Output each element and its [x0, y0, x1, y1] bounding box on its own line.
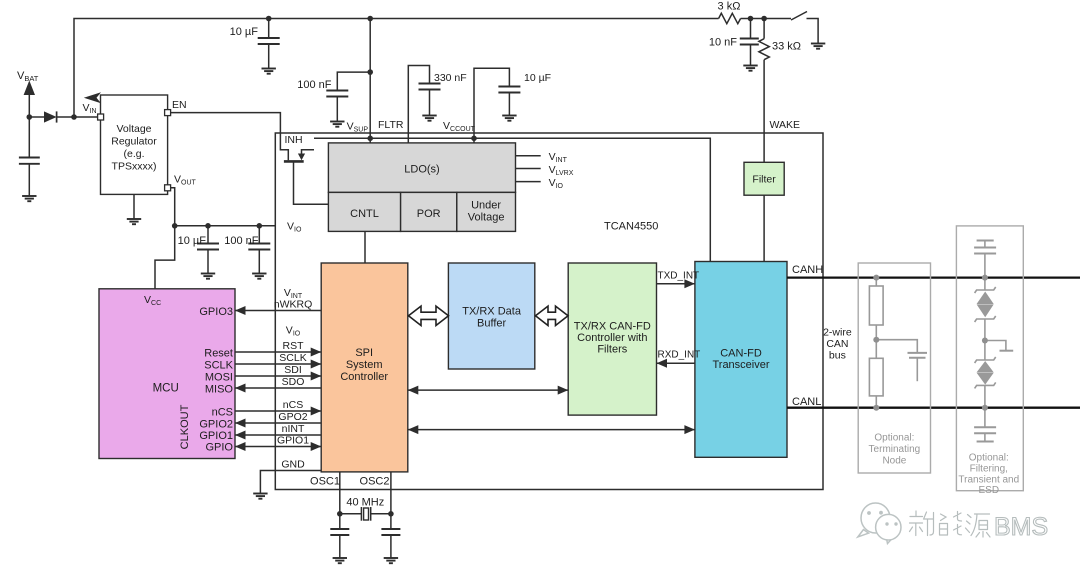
wire: TXD_INT — [657, 283, 695, 285]
node: VOUT rail corner — [172, 223, 178, 229]
wire: CNTL to SPI controller — [364, 231, 366, 263]
svg-text:Optional:: Optional: — [874, 433, 914, 444]
optional filtering transient ESD box — [956, 226, 1023, 491]
svg-text:CANH: CANH — [792, 264, 823, 276]
capacitor CT split termination — [876, 340, 927, 382]
ground (C5) — [502, 116, 516, 121]
svg-text:33 kΩ: 33 kΩ — [772, 41, 801, 53]
svg-text:Regulator: Regulator — [111, 136, 157, 148]
svg-text:330 nF: 330 nF — [434, 72, 467, 84]
wire: CANH bus line — [787, 276, 1080, 278]
capacitor 10 nF plates — [740, 39, 759, 45]
capacitor 10uF C3 plates — [197, 244, 219, 250]
wire: nINT net — [235, 434, 321, 436]
wire: VSUP/VCCOUT rail to transceiver — [314, 138, 710, 261]
svg-text:GND: GND — [281, 459, 305, 471]
under voltage block — [457, 192, 516, 231]
wire: GPO2 net — [235, 422, 321, 424]
voltage regulator U2 box — [101, 95, 168, 194]
svg-text:2-wire: 2-wire — [823, 327, 852, 339]
svg-text:SCLK: SCLK — [204, 360, 233, 372]
svg-text:MCU: MCU — [153, 383, 179, 395]
wire: GND net — [260, 471, 321, 494]
optional terminating node box — [858, 263, 930, 473]
svg-text:nWKRQ: nWKRQ — [274, 299, 313, 311]
pin stub VLVRX — [516, 168, 541, 170]
svg-text:MISO: MISO — [205, 384, 234, 396]
svg-text:FLTR: FLTR — [378, 119, 404, 131]
node: 10uF C3 tap — [205, 223, 211, 229]
svg-text:MOSI: MOSI — [205, 372, 233, 384]
wire: VCC feed to MCU — [155, 226, 175, 289]
svg-text:Controller with: Controller with — [577, 332, 647, 344]
wire: diode to regulator VIN — [29, 116, 44, 118]
svg-text:100 nF: 100 nF — [297, 79, 332, 91]
TCAN4550 outer box — [275, 133, 823, 490]
svg-text:OSC2: OSC2 — [360, 476, 390, 488]
diode D1 — [44, 111, 57, 122]
svg-text:INH: INH — [285, 134, 303, 146]
svg-text:SDI: SDI — [284, 364, 302, 376]
svg-text:10 µF: 10 µF — [230, 26, 259, 38]
bus arrow buffer to CAN-FD controller — [536, 306, 569, 325]
svg-text:100 nF: 100 nF — [224, 235, 259, 247]
wire: RXD_INT — [657, 362, 695, 364]
svg-text:nINT: nINT — [282, 423, 305, 435]
wire: 10nF stem — [750, 19, 752, 39]
svg-text:CAN: CAN — [826, 338, 848, 350]
svg-text:Voltage: Voltage — [468, 212, 505, 224]
capacitor 100nF C4 plates — [248, 244, 270, 250]
ground (VBAT cap) — [22, 196, 36, 201]
wire: TVS midpoint to chassis — [985, 341, 1013, 351]
svg-text:Filters: Filters — [597, 344, 627, 356]
ground (C4) — [252, 274, 266, 279]
wire: EN net from regulator to INH switch — [171, 113, 289, 161]
ground (SPI GND) — [253, 494, 267, 499]
svg-text:40 MHz: 40 MHz — [346, 497, 384, 509]
wire: SCLK net — [235, 363, 321, 365]
MCU pin labels — [199, 306, 233, 454]
TX/RX data buffer block — [448, 263, 534, 369]
node: RT top on CANH — [873, 275, 879, 281]
wire: GPIO1 net — [235, 446, 321, 448]
svg-text:Transceiver: Transceiver — [712, 359, 769, 371]
svg-text:CAN-FD: CAN-FD — [720, 348, 762, 360]
svg-text:nCS: nCS — [212, 407, 233, 419]
wire: SPI to controller arrow — [408, 389, 568, 391]
ground (OSC1 cap) — [333, 558, 347, 563]
wire: VBAT row left of diode — [28, 95, 30, 158]
filter block — [744, 162, 784, 195]
svg-text:ESD: ESD — [979, 485, 1000, 496]
ground (OSC2 cap) — [384, 558, 398, 563]
svg-text:10 µF: 10 µF — [524, 72, 551, 84]
svg-text:CLKOUT: CLKOUT — [179, 404, 191, 449]
logo wechat icon — [858, 503, 901, 544]
TVS diode Z2 (bidirectional) — [975, 341, 996, 408]
node: top rail left junction — [71, 114, 77, 120]
svg-text:LDO(s): LDO(s) — [404, 164, 439, 176]
capacitor 100 nF C2 plates — [326, 91, 348, 97]
wire: VSUP drop to LDO — [369, 19, 371, 143]
ground (10 nF) — [743, 66, 757, 71]
pin VOUT square — [165, 185, 171, 191]
wire: SDO net — [235, 387, 321, 389]
svg-text:Reset: Reset — [204, 348, 233, 360]
wire: CANL bus line — [787, 407, 1080, 409]
svg-text:Voltage: Voltage — [116, 123, 151, 135]
svg-text:Terminating: Terminating — [869, 444, 921, 455]
logo text — [910, 511, 991, 537]
wire: switch output to ground — [807, 19, 819, 44]
capacitor 10uF C3 stem — [207, 226, 209, 244]
ground (C1) — [262, 69, 276, 74]
svg-text:TX/RX Data: TX/RX Data — [462, 306, 522, 318]
svg-text:GPIO: GPIO — [205, 442, 233, 454]
node: VBAT junction — [27, 114, 33, 120]
svg-text:System: System — [346, 359, 383, 371]
wire: top VSUP rail — [74, 19, 719, 118]
SPI system controller block U1a — [321, 263, 408, 472]
node: RT bottom on CANL — [873, 405, 879, 411]
pin VIN square — [98, 114, 104, 120]
svg-text:WAKE: WAKE — [770, 119, 801, 131]
node: 10nF on rail — [748, 16, 754, 22]
svg-text:TX/RX CAN-FD: TX/RX CAN-FD — [574, 321, 651, 333]
node: OSC1 crystal junction — [337, 511, 343, 517]
svg-text:OSC1: OSC1 — [310, 476, 340, 488]
ground (330 nF) — [422, 116, 436, 121]
svg-text:SPI: SPI — [355, 347, 373, 359]
capacitor 100nF C4 stem — [258, 226, 260, 244]
pin stub VIO — [516, 181, 541, 183]
wire: regulator ground stem — [133, 194, 135, 218]
capacitor 330 nF plates — [419, 84, 441, 90]
svg-text:Under: Under — [471, 200, 501, 212]
wire: SDI net — [235, 375, 321, 377]
switch lever — [791, 12, 807, 21]
wire: FLTR loop to 330nF — [408, 66, 429, 143]
capacitor CF1 to chassis (top) — [974, 241, 996, 278]
svg-text:Filtering,: Filtering, — [970, 464, 1008, 475]
capacitor 10 uF C5 plates — [498, 87, 520, 93]
node: VSUP on supply rail — [367, 136, 373, 142]
node: 100nF C4 tap — [257, 223, 263, 229]
wire: SPI to transceiver arrow — [408, 429, 695, 431]
capacitor (OSC2) — [390, 514, 392, 558]
wire: Filter to transceiver top — [763, 195, 765, 261]
wire: nWKRQ net — [235, 310, 321, 312]
CNTL block — [328, 192, 400, 231]
wire: rail after 3k resistor to switch — [741, 18, 791, 20]
node: 100nF branch — [367, 69, 373, 75]
ground (C3) — [201, 274, 215, 279]
svg-text:BMS: BMS — [994, 513, 1048, 541]
svg-text:CNTL: CNTL — [350, 208, 379, 220]
svg-text:10 nF: 10 nF — [709, 37, 737, 49]
svg-text:Optional:: Optional: — [969, 453, 1009, 464]
node: C1 on rail — [266, 16, 272, 22]
svg-text:SCLK: SCLK — [279, 352, 306, 364]
capacitor (VBAT) plates — [19, 158, 40, 164]
capacitor 10 uF C1 plates — [258, 38, 280, 44]
wire: OSC1 stub — [339, 472, 341, 514]
svg-text:(e.g.: (e.g. — [123, 148, 144, 160]
svg-text:10 µF: 10 µF — [178, 235, 207, 247]
wire: VCCOUT loop to 10uF — [474, 68, 509, 143]
wire: OSC2 stub — [390, 472, 392, 514]
svg-text:Transient and: Transient and — [958, 475, 1019, 486]
svg-text:SDO: SDO — [282, 376, 305, 388]
node: RT middle — [873, 337, 879, 343]
svg-text:Node: Node — [882, 456, 906, 467]
svg-text:CANL: CANL — [792, 396, 821, 408]
capacitor CF2 to chassis (bottom) — [974, 408, 996, 442]
bus arrow SPI to buffer — [409, 306, 449, 325]
node: OSC2 crystal junction — [388, 511, 394, 517]
svg-text:POR: POR — [417, 208, 441, 220]
svg-text:GPIO1: GPIO1 — [199, 430, 233, 442]
node: VCCOUT on supply rail — [471, 136, 477, 142]
node: 33k on rail — [761, 16, 767, 22]
TVS diode Z1 (bidirectional) — [975, 278, 996, 341]
wire: 10uF C1 stem — [268, 19, 270, 39]
capacitor (OSC1) — [339, 514, 341, 558]
svg-text:EN: EN — [172, 99, 187, 111]
ground (regulator) — [127, 219, 141, 224]
svg-text:nCS: nCS — [283, 399, 303, 411]
resistor 3 kOhm — [719, 13, 741, 23]
svg-text:Controller: Controller — [340, 371, 388, 383]
wire: nCS net — [235, 410, 321, 412]
svg-text:Buffer: Buffer — [477, 318, 506, 330]
CAN-FD transceiver block — [695, 262, 787, 458]
svg-text:RXD_INT: RXD_INT — [658, 350, 701, 361]
svg-text:3 kΩ: 3 kΩ — [718, 1, 741, 13]
node: ESD middle — [982, 338, 988, 344]
svg-text:bus: bus — [829, 350, 846, 362]
transistor INH high-side switch — [284, 150, 329, 205]
ground (switch) — [811, 44, 825, 49]
ground (C2) — [330, 122, 344, 127]
TX/RX CAN-FD controller block — [568, 263, 656, 415]
svg-text:GPIO1: GPIO1 — [277, 435, 309, 447]
LDO(s) block — [328, 143, 515, 193]
wire: RST net — [235, 351, 321, 353]
resistor RT2 — [869, 340, 883, 408]
wire: 33k stem and WAKE line down to Filter — [763, 19, 765, 39]
wire: VBAT cap lower stem — [28, 164, 30, 196]
svg-text:TCAN4550: TCAN4550 — [604, 221, 658, 233]
resistor 33 kOhm — [759, 39, 769, 60]
arrow at regulator corner — [84, 92, 101, 103]
pin EN square — [165, 110, 171, 116]
svg-text:GPIO2: GPIO2 — [199, 419, 233, 431]
node: VSUP on rail — [367, 16, 373, 22]
node: ESD bottom on CANL — [982, 405, 988, 411]
MCU block — [99, 289, 235, 459]
wire: VOUT to VIO rail — [171, 188, 276, 226]
svg-text:Filter: Filter — [752, 174, 776, 186]
resistor RT1 — [869, 278, 883, 340]
svg-text:RST: RST — [283, 340, 305, 352]
svg-text:GPIO3: GPIO3 — [199, 306, 233, 318]
node: ESD top on CANH — [982, 275, 988, 281]
svg-text:TPSxxxx): TPSxxxx) — [112, 161, 157, 173]
pin stub VINT — [516, 155, 541, 157]
svg-text:TXD_INT: TXD_INT — [658, 271, 700, 282]
svg-text:GPO2: GPO2 — [278, 411, 307, 423]
POR block — [401, 192, 457, 231]
wire: 100nF branch — [337, 72, 370, 90]
